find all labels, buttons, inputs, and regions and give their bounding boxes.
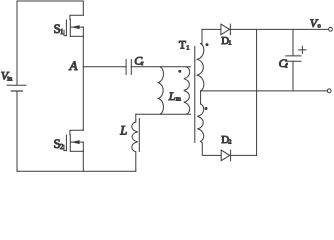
secondary top winding lead	[201, 29, 202, 43]
svg-text:1: 1	[186, 44, 189, 51]
capacitor Cr	[125, 60, 127, 75]
inductor L	[132, 122, 138, 152]
S1 body arrow	[71, 25, 79, 29]
output terminal Vo	[329, 27, 333, 31]
S1 gate lead	[64, 30, 66, 35]
transformer core	[194, 47, 196, 143]
capacitor Cf stem top	[292, 29, 294, 55]
svg-text:2: 2	[228, 139, 231, 146]
wire bottom rail	[17, 170, 136, 172]
battery Vin short plate	[11, 90, 22, 92]
svg-text:T: T	[179, 40, 186, 52]
S1 channel bar	[69, 19, 71, 36]
wire S2 drain lead	[70, 130, 83, 134]
wire D1 to output	[230, 28, 328, 30]
diode D1	[202, 24, 232, 47]
secondary bottom lead	[200, 91, 202, 104]
svg-text:1: 1	[60, 28, 64, 36]
wire cathode rail	[256, 29, 258, 155]
svg-text:A: A	[69, 58, 78, 73]
wire left rail to battery	[16, 1, 18, 85]
D1 cathode bar	[229, 24, 231, 35]
S2 source lead	[71, 150, 84, 152]
svg-text:L: L	[168, 89, 176, 103]
capacitor Cf stem bottom	[292, 61, 294, 91]
S1 source lead	[71, 35, 84, 37]
primary polarity dot	[178, 70, 181, 73]
S2 gate bar	[65, 135, 67, 151]
D2 triangle	[221, 150, 230, 161]
svg-text:r: r	[141, 60, 144, 67]
S2 body line	[71, 141, 84, 143]
S2 body arrow	[71, 140, 79, 144]
S1 gate bar	[65, 20, 67, 36]
transformer T1 primary winding	[184, 67, 190, 114]
diode D2	[221, 134, 231, 161]
wire S1 drain lead	[70, 15, 83, 19]
transformer T1 secondary bottom winding	[197, 104, 203, 141]
wire center tap	[201, 90, 328, 92]
wire node A to Cr	[83, 66, 126, 68]
wire battery to bottom rail	[16, 91, 18, 171]
wire D2 to rail	[231, 154, 257, 156]
S1 body line	[71, 26, 84, 28]
secondary bottom polarity dot	[205, 107, 208, 110]
wire S2 source to bottom rail	[82, 142, 84, 171]
svg-text:o: o	[318, 23, 321, 30]
transistor S2	[54, 130, 84, 151]
wire secondary bottom to D2	[201, 141, 221, 155]
plus sign	[299, 46, 306, 53]
D2 cathode bar	[230, 150, 232, 161]
wire L branch top	[135, 114, 137, 122]
wire top secondary to D1	[202, 28, 221, 30]
svg-text:in: in	[7, 75, 13, 82]
output return terminal	[327, 89, 331, 93]
S2 channel bar	[69, 134, 71, 151]
battery Vin long plate	[7, 84, 26, 86]
capacitor Cf plates	[286, 55, 301, 57]
svg-text:m: m	[176, 96, 181, 103]
svg-text:1: 1	[228, 40, 231, 47]
svg-text:f: f	[285, 63, 288, 70]
svg-text:2: 2	[60, 143, 64, 151]
svg-text:L: L	[119, 124, 127, 138]
D1 triangle	[221, 24, 230, 35]
wire top rail	[17, 1, 83, 15]
wire node A rail	[82, 27, 84, 130]
wire Lm bottom rail	[136, 113, 191, 115]
transistor S1	[54, 15, 84, 36]
wire L bottom to rail	[135, 152, 137, 172]
wire Cr to primary top	[131, 66, 190, 68]
secondary top polarity dot	[206, 43, 209, 46]
S2 gate lead	[64, 145, 66, 150]
inductor L core bar	[138, 119, 140, 152]
transformer T1 secondary top winding	[197, 44, 204, 91]
inductor Lm	[158, 67, 163, 114]
